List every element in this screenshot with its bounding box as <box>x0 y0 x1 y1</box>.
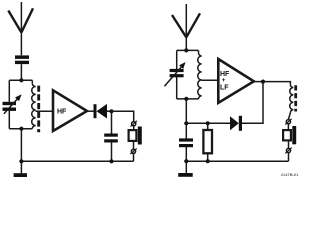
svg-text:+: + <box>222 77 226 84</box>
svg-text:LF: LF <box>220 84 229 91</box>
svg-text:2147B-01: 2147B-01 <box>281 172 299 177</box>
svg-text:HF: HF <box>57 109 67 116</box>
